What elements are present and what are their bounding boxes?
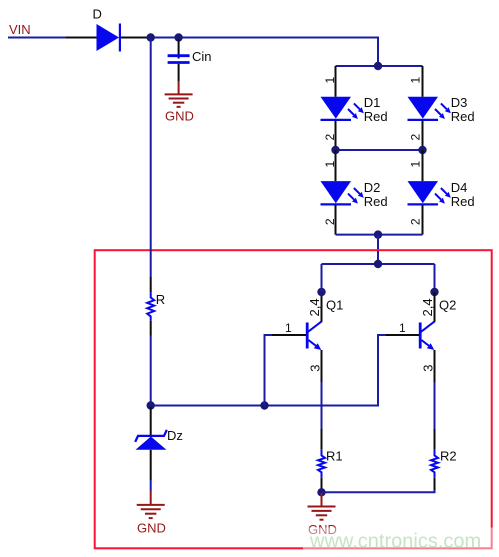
- LED D4 cathode bar: [408, 203, 439, 205]
- svg-text:2: 2: [323, 134, 337, 141]
- transistor Q2 base bar: [419, 323, 422, 349]
- junction dot top rail: [374, 62, 382, 70]
- junction dot node A: [147, 33, 155, 41]
- wire D4 cathode lead: [422, 205, 424, 235]
- svg-text:Red: Red: [451, 194, 475, 209]
- junction dot middle rail right: [418, 146, 426, 154]
- svg-text:1: 1: [323, 77, 337, 84]
- wire D3 cathode lead: [422, 121, 424, 150]
- svg-text:GND: GND: [137, 521, 166, 536]
- svg-text:2: 2: [323, 218, 337, 225]
- svg-text:1: 1: [285, 321, 292, 335]
- wire VIN to diode anode (black part): [66, 37, 97, 39]
- svg-text:www.cntronics.com: www.cntronics.com: [309, 531, 481, 553]
- transistor Q2 collector stroke: [421, 321, 435, 332]
- svg-text:3: 3: [421, 365, 436, 372]
- wire Q2 collector to split rail: [434, 264, 436, 292]
- wire VIN to diode (blue part): [8, 37, 66, 39]
- wire R to bias rail: [150, 336, 152, 406]
- svg-text:2,4: 2,4: [420, 298, 435, 316]
- resistor R1 zigzag: [318, 450, 325, 478]
- wire resistor R bottom lead: [150, 321, 152, 336]
- svg-text:3: 3: [308, 365, 323, 372]
- svg-text:Red: Red: [364, 109, 388, 124]
- wire Q1 base riser: [265, 335, 273, 406]
- zener diode Dz cathode bar with ticks: [135, 430, 167, 442]
- svg-text:Red: Red: [451, 109, 475, 124]
- wire R1 bottom lead: [321, 478, 323, 490]
- wire Dz top lead: [150, 407, 152, 435]
- transistor Q1 base bar: [306, 323, 309, 349]
- svg-text:R: R: [156, 292, 165, 307]
- wire middle ground stem (dark red): [321, 493, 323, 507]
- LED D3 cathode bar: [408, 119, 439, 121]
- diode D cathode bar: [119, 24, 121, 52]
- wire D1 anode lead: [335, 66, 337, 97]
- svg-text:2: 2: [408, 218, 422, 225]
- svg-text:D1: D1: [364, 95, 381, 110]
- wire Q1 emitter to R1: [321, 382, 323, 429]
- transistor Q2 collector pin wire: [434, 292, 436, 322]
- wire LED middle rail: [336, 149, 423, 151]
- resistor R zigzag: [147, 292, 154, 321]
- svg-text:D3: D3: [451, 95, 468, 110]
- ground symbol middle: [308, 507, 336, 520]
- LED D1 emission arrows: [348, 103, 364, 119]
- wire diode cathode to node (black part): [121, 37, 147, 39]
- wire D3 anode lead: [422, 66, 424, 97]
- wire emitter rail horizontal: [322, 490, 435, 492]
- wire LED top rail: [336, 65, 423, 67]
- LED D2 emission arrows: [348, 188, 364, 204]
- red boundary box: [95, 250, 492, 548]
- wire Cin to ground (dark red): [178, 81, 180, 94]
- wire D2 cathode lead: [335, 205, 337, 235]
- wire collectors split rail: [322, 263, 435, 265]
- resistor R2 zigzag: [431, 450, 438, 478]
- junction dot bias rail at Q1 base branch: [260, 401, 268, 409]
- LED D4 emission arrows: [435, 188, 451, 204]
- wire LED bottom rail: [336, 234, 423, 236]
- transistor Q1 emitter stroke with arrow: [308, 340, 321, 350]
- transistor Q2 emitter stroke with arrow: [421, 340, 434, 350]
- LED D2 cathode bar: [321, 203, 352, 205]
- svg-text:Q1: Q1: [326, 298, 343, 313]
- wire Dz to left ground: [150, 480, 152, 491]
- ground symbol left: [137, 505, 165, 518]
- junction dot emitter rail: [317, 488, 325, 496]
- wire Cin bottom lead: [178, 64, 180, 81]
- wire D4 anode lead: [422, 150, 424, 181]
- wire Q1 base lead (black): [272, 334, 306, 336]
- wire bottom rail down to collectors rail: [377, 235, 379, 264]
- svg-text:1: 1: [409, 77, 423, 84]
- ground symbol under Cin: [165, 94, 193, 106]
- wire Q1 collector to split rail: [321, 264, 323, 292]
- svg-text:Red: Red: [364, 194, 388, 209]
- LED D1 triangle: [321, 97, 352, 119]
- svg-text:Cin: Cin: [192, 49, 212, 64]
- svg-text:2: 2: [408, 134, 422, 141]
- junction dot bottom rail: [374, 230, 382, 238]
- svg-text:GND: GND: [165, 109, 194, 124]
- wire R2 top lead: [434, 429, 436, 450]
- LED D1 cathode bar: [321, 119, 352, 121]
- wire left drop from node A: [150, 38, 152, 278]
- LED D3 triangle: [408, 97, 439, 119]
- svg-text:R1: R1: [326, 449, 343, 464]
- wire D1 cathode lead: [335, 121, 337, 150]
- wire Q2 emitter to R2: [434, 382, 436, 429]
- svg-text:D4: D4: [451, 180, 468, 195]
- diode D triangle: [97, 24, 120, 51]
- wire left ground stem (dark red): [150, 491, 152, 505]
- svg-text:1: 1: [409, 161, 423, 168]
- transistor Q1 collector stroke: [308, 321, 322, 332]
- capacitor Cin top plate: [168, 54, 190, 57]
- svg-text:D: D: [93, 7, 102, 22]
- svg-text:D2: D2: [364, 180, 381, 195]
- wire Q1 emitter pin: [321, 350, 323, 382]
- LED D2 triangle: [321, 181, 352, 203]
- svg-text:1: 1: [399, 321, 406, 335]
- wire R2 bottom lead: [434, 478, 436, 490]
- svg-text:VIN: VIN: [9, 22, 31, 37]
- transistor Q1 collector pin wire: [321, 292, 323, 322]
- LED D3 emission arrows: [435, 103, 451, 119]
- junction dot bias rail at R/Dz: [147, 401, 155, 409]
- wire top rail to corner: [147, 38, 378, 67]
- wire D2 anode lead: [335, 150, 337, 181]
- junction dot Q1 collector: [317, 288, 325, 296]
- svg-text:R2: R2: [440, 449, 457, 464]
- junction dot split rail center: [374, 260, 382, 268]
- junction dot middle rail left: [331, 146, 339, 154]
- junction dot Q2 collector: [430, 288, 438, 296]
- wire bias rail horizontal: [151, 335, 386, 406]
- capacitor Cin bottom plate: [168, 61, 190, 64]
- wire R1 top lead: [321, 429, 323, 450]
- wire Cin top lead: [178, 39, 180, 59]
- svg-text:Dz: Dz: [167, 428, 183, 443]
- svg-text:2,4: 2,4: [307, 298, 322, 316]
- svg-text:1: 1: [323, 161, 337, 168]
- junction dot at Cin tap: [174, 33, 182, 41]
- LED D4 triangle: [408, 181, 439, 203]
- wire Q2 base lead (black): [386, 334, 419, 336]
- wire Q2 emitter pin: [434, 350, 436, 382]
- svg-text:Q2: Q2: [439, 298, 456, 313]
- wire Dz bottom lead: [150, 450, 152, 480]
- wire R1 to emitter rail: [321, 490, 323, 492]
- zener diode Dz triangle: [136, 437, 167, 450]
- wire resistor R top lead: [150, 277, 152, 292]
- watermark band overlay: [303, 528, 499, 557]
